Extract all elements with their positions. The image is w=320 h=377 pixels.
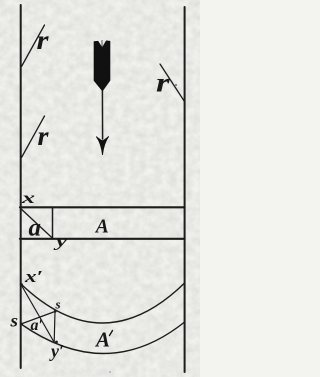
- small dot near right r: [175, 84, 177, 86]
- arrowhead: [96, 136, 109, 155]
- left upper diagonal r: [22, 25, 45, 66]
- junction blob rail/diagonal r1: [20, 65, 22, 67]
- svg-text:A: A: [94, 328, 110, 352]
- junction blob rail/diagonal r2: [20, 156, 22, 158]
- right diagonal r: [160, 64, 185, 102]
- svg-text:A: A: [94, 217, 109, 238]
- upper curve A': [21, 283, 185, 323]
- svg-text:r: r: [38, 121, 50, 151]
- diagonal s-left to s: [21, 312, 55, 325]
- svg-text:s: s: [9, 311, 18, 331]
- svg-text:s: s: [55, 297, 61, 312]
- svg-text:r: r: [156, 68, 170, 98]
- lower curve A': [21, 322, 185, 354]
- box inner vertical: [52, 208, 54, 239]
- svg-text:a: a: [29, 215, 42, 242]
- box diagonal x to y: [21, 209, 52, 238]
- junction dot s: [54, 310, 57, 313]
- svg-text:y′: y′: [49, 341, 64, 361]
- junction dot y': [55, 341, 58, 344]
- svg-text:r: r: [37, 25, 50, 55]
- right rail: [184, 7, 186, 372]
- svg-text:x: x: [20, 190, 35, 207]
- dart (feathered arrow body): [94, 41, 110, 91]
- svg-text:a′: a′: [31, 317, 44, 334]
- speck near bottom center: [109, 371, 111, 373]
- band bottom line: [20, 238, 185, 240]
- svg-text:y: y: [53, 232, 68, 251]
- arrow shaft: [101, 88, 103, 139]
- junction dot x': [20, 283, 23, 286]
- left lower diagonal r: [22, 116, 45, 157]
- svg-text:x′: x′: [24, 267, 43, 286]
- junction dot s-left: [20, 323, 23, 326]
- left rail: [20, 5, 22, 368]
- vertical s to y': [53, 312, 56, 343]
- band top line: [20, 206, 185, 208]
- diagonal x' to y': [21, 285, 54, 343]
- paper background: [0, 0, 200, 377]
- dart notch stem: [101, 40, 103, 47]
- prime of A': [110, 331, 113, 336]
